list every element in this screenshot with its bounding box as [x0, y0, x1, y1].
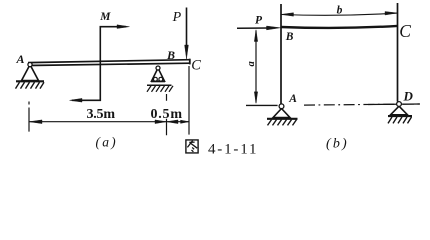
svg-text:A: A — [16, 52, 25, 66]
svg-text:0.5m: 0.5m — [151, 107, 183, 122]
svg-text:B: B — [285, 31, 294, 43]
svg-text:M: M — [99, 11, 111, 23]
svg-text:b: b — [337, 4, 343, 16]
svg-text:C: C — [399, 21, 411, 41]
svg-text:D: D — [403, 89, 414, 104]
svg-text:4-1-11: 4-1-11 — [208, 142, 257, 158]
svg-text:3.5m: 3.5m — [87, 107, 116, 122]
svg-text:P: P — [172, 10, 182, 25]
svg-text:A: A — [288, 93, 297, 105]
svg-text:C: C — [191, 58, 201, 74]
svg-text:(a): (a) — [96, 135, 118, 150]
svg-text:B: B — [166, 48, 175, 62]
svg-text:(b): (b) — [326, 137, 349, 152]
svg-text:P: P — [255, 15, 263, 27]
svg-text:a: a — [246, 61, 257, 66]
